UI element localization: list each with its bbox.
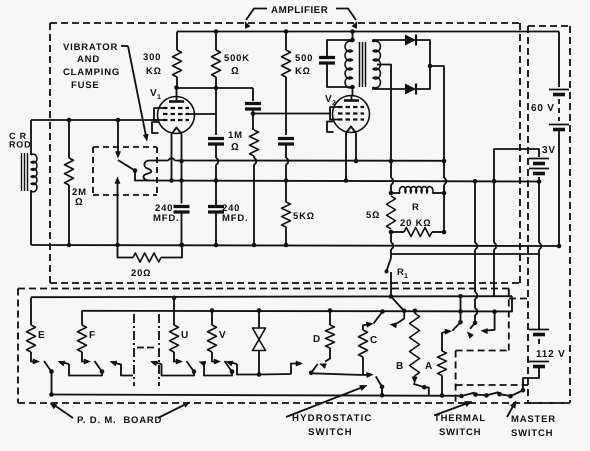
label 5 ohm — [366, 210, 380, 221]
resistor E — [27, 298, 36, 359]
switch F contact arm — [82, 358, 91, 364]
node plate wire 500K — [214, 86, 219, 91]
label 5K ohm — [293, 211, 315, 222]
tube V1 plate — [169, 88, 184, 102]
svg-text:2: 2 — [332, 100, 337, 107]
wire grid bus y120 — [31, 119, 157, 121]
node master contact — [521, 388, 526, 393]
node V1 right leg bus1 — [179, 159, 184, 164]
label A — [425, 361, 433, 372]
node bridge line heater bus1 — [442, 159, 447, 164]
resistor 5K — [282, 202, 291, 245]
node thermal4 — [497, 392, 502, 397]
svg-text:AMPLIFIER: AMPLIFIER — [271, 5, 328, 16]
wire diode node left arrow — [226, 361, 259, 375]
wire center tap down to 5ohm — [391, 161, 393, 193]
transformer core — [360, 42, 366, 87]
diode CR1 — [405, 35, 416, 46]
wire bus2 to 240MFD cap2 — [215, 181, 217, 207]
capacitor tank — [319, 40, 353, 87]
wire secondary top to diode — [373, 40, 405, 42]
svg-text:112 V: 112 V — [536, 349, 566, 360]
switch F pole routing to E — [58, 361, 102, 376]
node bus 20ohm left — [115, 243, 120, 248]
battery compartment dashed box — [528, 26, 570, 403]
wire bus2 to 5K — [285, 181, 287, 203]
node bus2 drop1 — [473, 179, 478, 184]
svg-text:HYDROSTATIC: HYDROSTATIC — [292, 413, 373, 424]
svg-text:500K: 500K — [224, 53, 250, 64]
svg-text:MFD.: MFD. — [222, 213, 248, 224]
switch C upper contact from resistor — [363, 322, 373, 330]
svg-text:B: B — [396, 361, 404, 372]
svg-text:A: A — [425, 361, 433, 372]
svg-text:P. D. M. BOARD: P. D. M. BOARD — [77, 415, 162, 426]
node thermal2 — [473, 392, 478, 397]
svg-text:R: R — [412, 202, 420, 213]
node C blade pivot on bus — [380, 309, 385, 314]
svg-text:1: 1 — [404, 273, 409, 280]
svg-text:Ω: Ω — [231, 142, 239, 153]
wire bias line to battery — [391, 253, 539, 255]
svg-text:MFD.: MFD. — [153, 213, 179, 224]
node A bottom bus — [440, 393, 445, 398]
svg-text:V: V — [219, 330, 226, 341]
wire R right down — [443, 193, 445, 232]
node U top — [172, 296, 177, 301]
node R network bottom right — [442, 230, 447, 235]
node 2M top — [67, 118, 72, 123]
label 2M ohm — [72, 187, 87, 208]
diode pair symbol — [253, 328, 266, 351]
label 1M ohm — [228, 130, 243, 153]
node vibrator top — [116, 118, 121, 123]
tube V1 envelope — [158, 97, 195, 134]
wire heater bus upper y161 — [150, 158, 444, 161]
diode pair lead top — [258, 311, 260, 329]
node V2 grid junction — [251, 111, 256, 116]
tube V2 grid 2 — [338, 112, 364, 114]
switch V pole routing left — [199, 361, 232, 375]
node U pole — [192, 369, 197, 374]
svg-text:500: 500 — [295, 53, 313, 64]
transformer primary — [345, 41, 352, 88]
node AVC line heater bus2 — [214, 178, 219, 183]
svg-text:F: F — [89, 330, 96, 341]
tube V2 grid 1 — [338, 106, 364, 108]
switch continuation contact left arrow — [110, 361, 133, 376]
wire C R ROD bottom lead — [30, 190, 32, 245]
switch C lower blade — [376, 376, 382, 387]
wire thermal to master — [500, 394, 511, 396]
svg-text:SWITCH: SWITCH — [308, 427, 353, 438]
wire 500K bottom down — [215, 88, 217, 135]
svg-text:SWITCH: SWITCH — [511, 428, 553, 439]
tube V1 envelope notch — [152, 122, 159, 133]
hydrostatic callout arrow — [286, 385, 367, 417]
wire V1 grid2 lead right — [189, 113, 216, 115]
resistor V — [208, 311, 217, 359]
switch blade right1 — [452, 296, 462, 330]
svg-text:THERMAL: THERMAL — [434, 413, 486, 424]
svg-text:20Ω: 20Ω — [131, 268, 151, 279]
battery 3V — [529, 159, 549, 174]
wire drop x494 from 3V line — [494, 181, 496, 296]
svg-text:MASTER: MASTER — [511, 414, 556, 425]
resistor A — [438, 351, 447, 396]
wire 3V bottom — [538, 177, 540, 182]
label V — [219, 330, 226, 341]
capacitor 240 MFD first — [174, 207, 190, 246]
node cathode left leg on heater bus — [169, 178, 174, 183]
wire E pole to bottom bus — [51, 372, 53, 395]
switch R1-side contact — [390, 311, 404, 328]
switch thermal blade1 — [462, 393, 475, 396]
switch D left contact — [291, 361, 303, 374]
wire 5ohm bottom down — [391, 232, 393, 258]
wire bridge output right and down — [430, 66, 446, 193]
label V1 — [150, 88, 162, 101]
diode pair lead bottom — [258, 351, 260, 375]
svg-text:VIBRATOR: VIBRATOR — [63, 42, 118, 53]
wire C R ROD top lead — [30, 120, 32, 155]
amplifier callout leader right — [336, 9, 357, 29]
resistor 20 ohm loop — [118, 245, 183, 262]
node diode bottom junction — [257, 372, 262, 377]
switch E contact arm — [31, 358, 40, 364]
wire diode2 out — [416, 68, 430, 89]
vibrator callout leader — [121, 46, 148, 141]
resistor 20K — [391, 228, 444, 237]
node E pole — [49, 369, 54, 374]
capacitor on AVC line — [208, 139, 224, 145]
capacitor 240 MFD second — [208, 207, 224, 246]
svg-text:SWITCH: SWITCH — [439, 427, 481, 438]
wire secondary bottom to diode — [373, 87, 405, 89]
wire V2 cathode left leg — [345, 133, 347, 181]
thermal switch dashed notch — [456, 351, 528, 404]
switch A contact arm — [442, 329, 452, 351]
wire top bus to transformer — [352, 32, 354, 43]
label 3V — [542, 145, 556, 156]
label B — [396, 361, 404, 372]
battery 60V cell1 — [549, 90, 569, 95]
svg-text:FUSE: FUSE — [71, 80, 100, 91]
switch U blade — [187, 361, 194, 371]
resistor 5 ohm — [387, 196, 396, 229]
node bus 60V return — [557, 244, 562, 249]
label 60 V — [531, 103, 555, 114]
node V1 right leg bus2 — [179, 178, 184, 183]
tube V2 grid side bracket — [330, 107, 338, 120]
wire V2 cathode right leg — [355, 133, 357, 161]
wire top bus down to 60V — [558, 32, 560, 88]
label E — [38, 330, 45, 341]
resistor 500K second — [282, 32, 291, 136]
node 3V bottom bus2 — [537, 179, 542, 184]
label 500 K ohm second — [295, 53, 313, 77]
tube V2 envelope notch — [327, 122, 334, 133]
tube V2 plate — [344, 95, 359, 101]
thermal callout arrow — [434, 401, 472, 415]
capacitor coupling C1 — [245, 88, 261, 109]
wire V1 cathode left leg — [171, 134, 173, 181]
tube V1 grid 1 — [163, 107, 189, 109]
wire diode1 out — [416, 40, 430, 64]
battery 112V cell2 — [529, 362, 549, 367]
wire V1 plate to 500K and coupling cap — [177, 87, 253, 89]
switch blade right2 — [467, 321, 477, 339]
svg-text:20 KΩ: 20 KΩ — [400, 218, 431, 229]
node center tap on bus1 — [389, 159, 394, 164]
resistor 1M — [250, 130, 259, 245]
PDM callout left arrow — [50, 403, 73, 418]
svg-text:5KΩ: 5KΩ — [293, 211, 315, 222]
vibrator dashed box — [93, 147, 157, 195]
wire heater bus lower y181 — [144, 181, 539, 182]
node 20ohm right — [180, 243, 185, 248]
wire vibrator pivot to heater — [135, 171, 144, 181]
node top bus / 500K — [214, 29, 219, 34]
wire 3V top lead — [494, 149, 539, 181]
tube V1 grid 3 — [163, 119, 189, 121]
wire V1 cathode right leg — [181, 134, 183, 204]
label 500K ohm — [224, 53, 250, 77]
svg-text:1M: 1M — [228, 130, 243, 141]
PDM callout right arrow — [158, 402, 190, 418]
resistor B — [410, 313, 420, 378]
battery 112V cell1 — [529, 330, 549, 335]
switch F blade — [95, 361, 102, 371]
svg-text:ROD: ROD — [9, 140, 31, 150]
node V2 right leg bus1 — [354, 159, 359, 164]
wire D pole to C contact — [311, 373, 363, 375]
transformer secondary — [373, 41, 380, 88]
wire PDM upper bus — [31, 296, 512, 297]
tube V2 cathode — [346, 127, 356, 134]
switch master blade — [511, 391, 523, 397]
node thermal3 — [484, 393, 489, 398]
wire 60V bottom to bus — [558, 130, 560, 247]
battery 60V cell2 — [549, 125, 569, 130]
node bus 2M — [67, 243, 72, 248]
resistor D — [326, 311, 335, 357]
node R network bottom left — [389, 230, 394, 235]
node D top — [328, 308, 333, 313]
wire B pole to bottom bus — [424, 387, 429, 395]
switch U pole routing left — [151, 361, 195, 376]
label P.D.M. BOARD — [77, 415, 162, 426]
svg-text:1: 1 — [157, 94, 162, 101]
label HYDROSTATIC SWITCH — [292, 413, 373, 438]
resistor 500K — [212, 32, 221, 89]
switch R1 blade — [385, 258, 392, 274]
switch D resistor arm arrow — [320, 356, 331, 369]
wire secondary center tap — [377, 65, 391, 161]
wire thermal link — [476, 394, 487, 397]
resistor U — [170, 298, 179, 358]
wire PDM bottom bus — [52, 395, 461, 396]
svg-text:3V: 3V — [542, 145, 556, 156]
wire transformer to V2 plate — [352, 87, 354, 95]
node bus 240MFD-1 — [179, 243, 184, 248]
node vibrator blade pivot — [133, 168, 138, 173]
svg-text:D: D — [313, 334, 321, 345]
wire diode node to D contact — [259, 373, 291, 376]
resistor F — [78, 311, 87, 359]
node R1 board junction — [389, 294, 394, 299]
inductor C R ROD coil — [22, 153, 37, 192]
wire top B+ bus — [177, 31, 559, 33]
label 20 ohm — [131, 268, 151, 279]
svg-text:AND: AND — [77, 54, 100, 65]
node R network top left — [389, 191, 394, 196]
svg-text:C: C — [370, 335, 378, 346]
node blade1 second bus — [458, 309, 463, 314]
svg-text:KΩ: KΩ — [146, 66, 162, 77]
node F pole — [100, 369, 105, 374]
diode CR2 — [405, 84, 416, 95]
svg-text:KΩ: KΩ — [295, 66, 311, 77]
heater filament S-curve — [144, 161, 152, 181]
node C pole — [380, 385, 385, 390]
node tank bottom — [350, 85, 355, 90]
switch C lower contact arm — [363, 372, 373, 377]
resistor 2M — [65, 120, 74, 245]
wire 3V bottom down to 112V — [539, 182, 541, 330]
wire AVC cap to heater buses — [216, 144, 218, 181]
switch D blade — [311, 364, 317, 373]
tube V1 grid 2 — [163, 113, 189, 115]
node B pole — [422, 385, 427, 390]
svg-text:Ω: Ω — [231, 66, 239, 77]
wire V2 grid — [253, 113, 330, 115]
label C R ROD — [9, 131, 31, 150]
vibrator blade — [118, 160, 134, 170]
node tank top — [350, 38, 355, 43]
wire R1 lower lead — [390, 272, 392, 297]
tube V2 envelope — [333, 96, 370, 133]
node bridge output — [428, 64, 433, 69]
label 112 V — [534, 344, 566, 360]
wire drop x475 — [475, 181, 477, 323]
battery 60V dashed gap — [558, 99, 560, 121]
svg-text:Ω: Ω — [75, 197, 83, 208]
inductor R — [391, 187, 444, 193]
node bus2 drop2 — [492, 179, 497, 184]
node bus 1M — [252, 243, 257, 248]
node diode pair top — [257, 308, 262, 313]
svg-text:U: U — [181, 330, 189, 341]
wire C pole to bottom bus — [381, 387, 383, 395]
switch right arrow3 — [481, 312, 495, 334]
P.D.M. board continuation dash-dot divider — [134, 314, 159, 386]
switch E blade — [44, 361, 51, 371]
wire C1 to 1M — [252, 109, 254, 130]
node thermal1 — [459, 394, 464, 399]
tube V1 cathode — [172, 128, 182, 135]
node V2 left leg bus2 — [344, 178, 349, 183]
label AMPLIFIER — [271, 5, 328, 16]
switch B contact arrow down — [412, 377, 417, 384]
label C — [370, 335, 378, 346]
node arrow3 second bus — [492, 309, 497, 314]
node R network top right — [442, 191, 447, 196]
label 300 K ohm — [143, 52, 162, 77]
node 500K-2 bus2 — [284, 178, 289, 183]
label 240 MFD second — [222, 203, 248, 224]
label R1 — [397, 267, 409, 280]
dashed link PDM box to battery box — [509, 298, 528, 300]
node D pole — [309, 371, 314, 376]
node V pole — [230, 369, 235, 374]
switch thermal blade2 — [487, 392, 499, 395]
label MASTER SWITCH — [511, 414, 556, 439]
switch C upper blade — [374, 312, 383, 324]
resistor 300K — [173, 32, 182, 88]
node master pivot — [508, 394, 513, 399]
label U — [181, 330, 189, 341]
svg-text:CLAMPING: CLAMPING — [63, 67, 120, 78]
resistor C — [359, 330, 368, 375]
amplifier dashed enclosure box — [50, 23, 520, 283]
node E pole on bottom bus — [49, 392, 54, 397]
master callout arrow — [507, 401, 516, 417]
node bus 5K — [284, 243, 289, 248]
svg-text:E: E — [38, 330, 45, 341]
node C pole bottom bus — [380, 393, 385, 398]
capacitor on 500K-2 line — [278, 139, 294, 145]
amplifier callout leader left — [245, 9, 267, 29]
svg-text:60 V: 60 V — [531, 103, 555, 114]
label R — [412, 202, 420, 213]
node V top — [210, 308, 215, 313]
label V2 — [325, 94, 337, 107]
node top bus / 500K-2 — [284, 29, 289, 34]
tube V2 grid 3 — [338, 118, 364, 120]
switch B blade — [413, 384, 424, 387]
label F — [89, 330, 96, 341]
switch U contact arm — [174, 358, 183, 364]
label D — [313, 334, 321, 345]
wire bottom bus — [31, 245, 559, 246]
switch V blade — [225, 361, 232, 371]
node riser upper bus — [458, 294, 463, 299]
label 20 K ohm — [400, 218, 431, 229]
node diag on second bus — [402, 309, 407, 314]
vibrator lower contact arrow — [115, 177, 120, 245]
vibrator fixed contact — [115, 120, 120, 158]
wire 500K-2 cap down — [286, 144, 288, 181]
label THERMAL SWITCH — [434, 413, 486, 438]
label 240 MFD first — [153, 203, 179, 224]
node V1 plate — [174, 85, 179, 90]
node 3V feed on bus2 — [492, 179, 497, 184]
node top bus / transformer — [350, 29, 355, 34]
label VIBRATOR AND CLAMPING FUSE — [63, 42, 120, 91]
node B top — [413, 309, 418, 314]
P.D.M. board dashed box — [18, 289, 570, 404]
node bus 240MFD-2 — [214, 243, 219, 248]
switch V contact arm — [212, 358, 221, 364]
battery 112V dashed gap — [538, 339, 540, 358]
wire 112V bottom to master switch — [523, 367, 539, 391]
svg-text:5Ω: 5Ω — [366, 210, 380, 221]
tube V1 grid side bracket — [154, 108, 163, 120]
wire PDM second bus — [82, 296, 512, 311]
svg-text:300: 300 — [143, 52, 161, 63]
wire R1 junction diagonal — [391, 297, 404, 311]
